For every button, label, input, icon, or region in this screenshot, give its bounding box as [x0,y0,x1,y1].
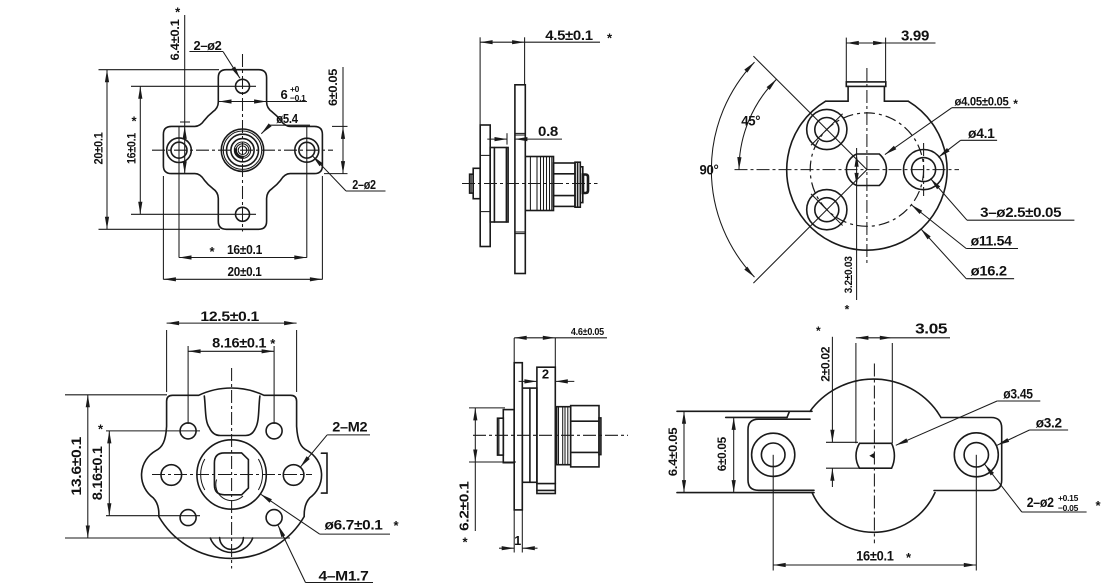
view5 shaft nub collar [503,410,514,463]
svg-text:2: 2 [542,367,549,382]
svg-text:6±0.05: 6±0.05 [717,436,729,471]
view3 dim 3.99 top [845,38,847,82]
view1 vertical centerline [242,54,244,232]
svg-text:ø4.05±0.05: ø4.05±0.05 [955,97,1010,109]
view6 dim 6.4±0.05 [683,411,685,492]
view6 left ear outline [748,419,814,490]
svg-text:4.5±0.1: 4.5±0.1 [545,27,593,43]
view4 hole mid-right M2 [283,465,304,486]
view1 left ear edge extension to 20 dim [162,176,164,280]
view5 grooved ring [557,407,571,465]
view2 hex nut [554,163,576,206]
svg-text:1: 1 [514,534,521,548]
svg-text:4–M1.7: 4–M1.7 [319,568,370,584]
svg-text:ø6.7±0.1: ø6.7±0.1 [325,517,384,533]
svg-text:90°: 90° [700,163,719,178]
view1 dim 6.4±0.1 vertical [184,15,186,174]
view3 main circle outline with top chord [787,101,947,250]
svg-text:20±0.1: 20±0.1 [228,265,262,279]
view2 horizontal centerline [462,183,598,185]
svg-text:13.6±0.1: 13.6±0.1 [68,436,84,495]
view1 right hole vertical extension [306,126,308,258]
view4 central oblong hole [214,453,248,495]
view1 dim 20±0.1 vertical [99,69,220,71]
view2 dim 4.5±0.1 [479,37,481,125]
view3 diagonal centerline through top-left hole [753,56,867,170]
view6 left hole extension to 16 dim [772,455,774,571]
view5 horizontal centerline [473,434,628,436]
view5 dim 4.6±0.05 [513,338,515,363]
view4 dim 12.5±0.1 [166,330,168,392]
svg-text:20±0.1: 20±0.1 [91,132,105,165]
view5 dim 6.2±0.1 [469,407,505,409]
view6 dim 2±0.02 [826,441,858,443]
view6 dim 3.05 top [855,343,857,443]
view2 left plate [480,125,490,247]
svg-text:+0.15: +0.15 [1058,493,1079,503]
svg-text:6.2±0.1: 6.2±0.1 [456,481,471,531]
view6 left flange top line [677,410,812,412]
view1 central boss circles [221,129,263,171]
view2 middle collar block [490,148,508,223]
view4 hole mid-left M2 [161,465,182,486]
view2 barrel cylinder [525,157,553,211]
view4 screw hole bottom-left M1.7 [180,510,196,526]
svg-text:16±0.1: 16±0.1 [227,243,262,257]
view4 screw hole top-right M1.7 [266,423,282,439]
view6 right hole extension to 16 dim [975,455,977,571]
view1 top hole horizontal centerline [131,85,256,87]
view3 boss top band [846,82,886,87]
view6 left ear hole [752,433,795,476]
view4 vertical centerline [231,368,233,569]
view2 end cap [580,167,583,203]
svg-text:*: * [845,303,850,317]
svg-text:2–ø2: 2–ø2 [352,178,376,192]
view5 disc [537,367,555,493]
view4 dim 8.16±0.1 top [187,346,189,424]
view1 dim 6 +0/-0.1 top tab [219,101,307,103]
view4 bottom small hole arc [220,538,244,550]
view3 horizontal centerline [735,169,960,171]
view3 bolt circle dashed [810,113,923,226]
view5 hex nut [571,406,599,467]
view2 shaft nub [473,168,480,198]
view1 dim 20±0.1 bottom [163,278,322,280]
view4 outline [142,388,322,558]
svg-text:3.99: 3.99 [901,29,929,45]
view6 bottom arc [812,493,935,533]
view3 hole right [904,150,944,190]
view5 main plate [514,363,522,510]
svg-text:0.8: 0.8 [538,124,559,139]
view4 dim 8.16±0.1 left [106,430,200,432]
svg-text:*: * [1013,97,1018,111]
view2 plate lower tick lines [515,231,525,233]
view2 connector tip [583,175,588,194]
view5 dim 1 plate thickness [513,510,515,553]
svg-text:12.5±0.1: 12.5±0.1 [200,308,259,324]
view4 bottom boss arc [210,538,253,552]
view3 right hole vertical centerline [923,143,925,196]
svg-text:8.16±0.1: 8.16±0.1 [89,446,105,501]
view4 U slot cutout [204,396,260,436]
view6 hex center mark [869,453,874,459]
view1 bottom mounting hole [236,207,250,221]
svg-text:8.16±0.1: 8.16±0.1 [212,335,267,351]
svg-text:2–ø2: 2–ø2 [1027,495,1054,510]
svg-text:45°: 45° [741,114,760,129]
view4 right side tab [321,453,327,493]
svg-text:*: * [816,324,821,338]
svg-text:3.2±0.03: 3.2±0.03 [843,256,855,293]
svg-text:6.4±0.05: 6.4±0.05 [668,427,680,477]
view6 vertical centerline [873,364,875,544]
view6 dim 16±0.1 bottom [773,564,976,566]
view6 bottom edge line [677,492,814,494]
view6 right ear outline [934,418,1002,491]
view3 dim 45 degree arc [739,79,777,169]
view2 left plate tick lines [480,154,490,156]
svg-text:3.05: 3.05 [915,322,947,338]
view2 dim 0.8 [506,133,508,144]
view4 screw hole bottom-right M1.7 [266,510,282,526]
svg-text:16±0.1: 16±0.1 [856,548,894,564]
view1 dim 16±0.1 vertical [139,86,141,214]
view3 hole bottom-left [807,190,847,230]
view1 shaft D-cut dark arc [236,148,244,157]
view1 left ear hole [167,138,192,163]
view6 center hex hole [856,443,894,468]
view3 dim 90 degree arc [711,62,754,277]
svg-text:−0.1: −0.1 [290,93,306,103]
view6 dim 6±0.05 [733,417,735,492]
view1 top mounting hole [236,79,250,93]
svg-text:ø16.2: ø16.2 [971,264,1007,279]
view1 flange front view outline [163,70,322,230]
view3 hole top-left [807,109,847,149]
view2 plate upper tick lines [515,132,525,134]
view3 top chord shoulders and boss neck [826,100,849,102]
svg-text:ø3.45: ø3.45 [1003,387,1033,402]
svg-text:6±0.05: 6±0.05 [326,68,340,106]
view4 central boss circle ø6.7 [197,440,266,509]
svg-text:4.6±0.05: 4.6±0.05 [571,326,604,338]
view3 vertical centerline [866,68,868,265]
svg-text:ø5.4: ø5.4 [276,112,298,126]
view1 right ear hole [295,138,319,162]
view4 horizontal centerline [152,474,312,476]
view1 horizontal centerline [152,149,333,151]
view1 bottom hole horizontal centerline [131,213,256,215]
view3 cross line top-left hole [811,114,843,146]
view2 main flange plate [515,85,525,274]
svg-text:ø4.1: ø4.1 [968,126,995,141]
view4 boss chamfer arcs [201,459,205,490]
svg-text:2–ø2: 2–ø2 [194,39,222,53]
view6 top arc [810,379,937,411]
view4 dim 13.6±0.1 left [65,394,167,396]
svg-text:6: 6 [281,87,288,102]
svg-text:2±0.02: 2±0.02 [821,347,833,382]
view4 oblong inner arc [216,480,243,501]
view4 screw hole top-left M1.7 [180,423,196,439]
view5 cylinder between plate and disc [522,388,537,482]
svg-text:16±0.1: 16±0.1 [125,132,139,164]
view1 right ear edge extension to 20 dim [321,176,323,280]
view3 diagonal centerline through bottom-left hole [753,170,867,284]
view2 washer ring [575,162,580,207]
view3 dim 3.2±0.03 line with arrows [856,148,858,300]
view1 dim 16±0.1 bottom [179,257,307,259]
svg-text:3–ø2.5±0.05: 3–ø2.5±0.05 [980,205,1062,220]
svg-text:ø11.54: ø11.54 [971,234,1013,249]
view5 dim 2 disc width [519,380,537,382]
view6 left flange second line with step [726,416,787,418]
view3 center hex hole [846,154,886,186]
view1 left hole vertical extension [178,126,180,258]
view1 dim 6±0.05 right [342,67,344,174]
svg-text:ø3.2: ø3.2 [1036,416,1062,431]
view5 nut right corner bump [599,418,601,455]
svg-text:6.4±0.1: 6.4±0.1 [168,19,182,61]
view6 right ear hole [954,433,998,477]
svg-text:2–M2: 2–M2 [332,419,368,435]
view3 cross line bottom-left hole [811,194,843,226]
